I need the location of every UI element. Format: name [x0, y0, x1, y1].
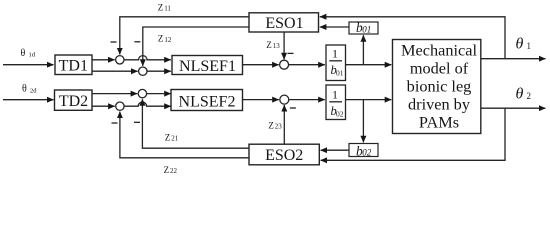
svg-text:1: 1 [332, 87, 338, 101]
summing junction S4 [138, 89, 146, 97]
wire z13 from ESO1 bottom to S3 [283, 32, 285, 59]
wire junction down to b02 block [362, 100, 364, 143]
svg-text:Z: Z [158, 34, 164, 44]
wire z22 feedback from ESO2 left to S5 [120, 112, 249, 158]
minus sign at S3 input [288, 52, 294, 54]
svg-text:θ: θ [21, 48, 26, 59]
svg-text:23: 23 [275, 123, 283, 131]
svg-text:1: 1 [332, 47, 338, 61]
svg-text:NLSEF1: NLSEF1 [179, 58, 236, 75]
svg-text:1d: 1d [29, 52, 36, 59]
svg-text:Z: Z [266, 40, 272, 50]
wire u2 from 1/b02 to Mechanical model with junction to b02 [346, 99, 392, 101]
summing junction S5 [116, 102, 124, 110]
svg-text:02: 02 [336, 109, 344, 118]
svg-text:ESO2: ESO2 [265, 147, 303, 164]
svg-text:Z: Z [158, 2, 164, 12]
minus sign at S5 input [112, 122, 118, 124]
wire junction up to b01 block [362, 35, 364, 64]
wire z11 feedback from ESO1 left to S1 [120, 17, 249, 55]
svg-text:13: 13 [273, 42, 281, 50]
wire S2 output to NLSEF1 [147, 70, 171, 72]
svg-text:22: 22 [170, 167, 178, 175]
svg-text:ESO1: ESO1 [265, 15, 303, 32]
svg-text:PAMs: PAMs [419, 113, 459, 132]
wire NLSEF1 output to summing junction S3 [243, 64, 279, 66]
wire u1 from 1/b01 to Mechanical model with junction to b01 [346, 64, 392, 66]
wire z21 feedback from ESO2 left to S4 [142, 99, 249, 148]
svg-text:driven by: driven by [408, 95, 471, 114]
svg-text:θ: θ [516, 86, 524, 103]
svg-text:Z: Z [165, 132, 171, 142]
svg-text:11: 11 [164, 5, 171, 13]
svg-text:θ: θ [516, 36, 524, 53]
svg-text:Mechanical: Mechanical [401, 40, 477, 59]
svg-text:21: 21 [171, 135, 179, 143]
svg-text:12: 12 [164, 36, 172, 44]
block Mechanical model of bionic leg driven by PAMs [393, 40, 481, 134]
wire b02 output into ESO2 right [321, 149, 349, 151]
fraction bar in 1/b02 [329, 101, 342, 103]
wire TD2 bottom output to summing junction S5 [92, 105, 115, 107]
wire z23 from ESO2 top to S6 [283, 105, 285, 144]
svg-text:NLSEF2: NLSEF2 [179, 94, 236, 111]
wire S1 output to NLSEF1 with hop over z12 line [124, 56, 171, 60]
block b02 [349, 144, 378, 157]
block NLSEF2 [171, 90, 243, 111]
wire S5 output to NLSEF2 with hop over z21 line [124, 102, 171, 106]
wire b01 output into ESO1 right [320, 26, 349, 28]
block 1/b02 [326, 85, 346, 120]
wire S6 output to 1/b02 block [289, 99, 325, 101]
svg-text:Z: Z [268, 120, 274, 130]
block TD2 [55, 90, 93, 110]
wire TD1 bottom output to summing junction S2 [92, 70, 138, 72]
wire S3 output to 1/b01 block [288, 64, 325, 66]
wire S4 output to NLSEF2 [147, 93, 171, 95]
summing junction S3 [280, 60, 289, 69]
minus sign at S2 input [134, 41, 140, 43]
block ESO2 [249, 144, 319, 165]
minus sign at S6 input [290, 107, 296, 109]
svg-text:TD2: TD2 [59, 93, 88, 110]
fraction bar in 1/b01 [329, 60, 342, 62]
svg-text:2d: 2d [30, 88, 37, 95]
wire Mechanical model output 1 [481, 58, 546, 60]
wire TD2 top output to summing junction S4 [92, 93, 137, 95]
wire input theta1d into TD1 [3, 64, 54, 66]
wire output y1 feedback to ESO1 [320, 17, 505, 59]
svg-text:1: 1 [527, 41, 532, 51]
svg-text:θ: θ [22, 84, 27, 95]
summing junction S1 [116, 56, 124, 64]
svg-text:01: 01 [336, 68, 344, 77]
wire output y2 feedback to ESO2 [321, 108, 505, 160]
block b01 [349, 22, 378, 34]
svg-text:01: 01 [362, 25, 371, 35]
summing junction S6 [280, 95, 289, 104]
summing junction S2 [139, 67, 147, 75]
wire z12 feedback from ESO1 left to S2 [143, 27, 249, 66]
wire TD1 top output to summing junction S1 [92, 59, 115, 61]
minus sign at S4 input [134, 121, 140, 123]
svg-text:bionic leg: bionic leg [407, 76, 472, 95]
block ESO1 [249, 13, 319, 32]
wire NLSEF2 output to summing junction S6 [243, 99, 279, 101]
block NLSEF1 [172, 56, 243, 75]
block TD1 [55, 55, 92, 75]
minus sign at S1 input [111, 41, 117, 43]
wire Mechanical model output 2 [481, 107, 546, 109]
svg-text:model of: model of [410, 58, 469, 77]
svg-text:TD1: TD1 [59, 58, 88, 75]
wire input theta2d into TD2 [3, 99, 54, 101]
block 1/b01 [326, 45, 346, 81]
svg-text:Z: Z [164, 165, 170, 175]
svg-text:02: 02 [362, 148, 372, 158]
svg-text:2: 2 [527, 91, 532, 101]
